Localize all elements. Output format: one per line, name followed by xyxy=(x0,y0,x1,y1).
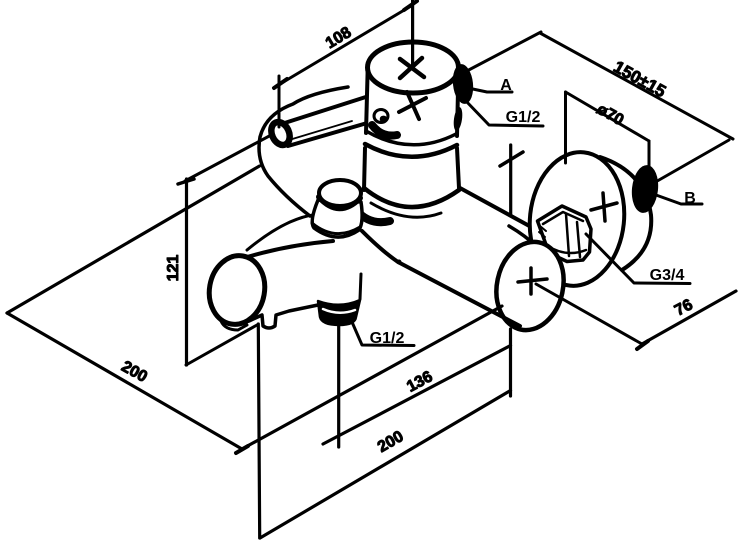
svg-text:G1/2: G1/2 xyxy=(370,330,405,347)
cartridge upper walls xyxy=(366,72,368,133)
dimension ø70 left extension xyxy=(564,92,567,163)
dimension 108 line xyxy=(280,6,411,84)
dimension 150±15 extension from A xyxy=(463,32,541,73)
body right silhouette knob to outlet bottom xyxy=(362,231,520,326)
outlet cross xyxy=(518,268,547,294)
disc front ellipse xyxy=(523,147,630,290)
knurled nut body xyxy=(538,206,592,262)
dimension 121 extension to lever end xyxy=(185,134,273,181)
wall plane upper edge from left corner xyxy=(7,166,260,313)
centerline vertical above handle xyxy=(411,0,414,66)
wall flange arc behind cartridge and lever xyxy=(259,87,348,216)
body top edge left xyxy=(244,241,333,258)
dimension ø70 line xyxy=(566,92,650,141)
diverter knob ring arc xyxy=(319,197,360,208)
nut corner notches xyxy=(539,226,546,237)
diverter knob skirt xyxy=(312,200,362,237)
black crescent upper xyxy=(372,125,397,136)
extension vertical from spout bottom xyxy=(258,324,259,538)
spout lip tab xyxy=(221,321,247,330)
body bottom edge with aerator bump xyxy=(249,305,318,328)
G1/2 bottom nipple black xyxy=(318,300,360,325)
bottom corner V tick xyxy=(236,446,248,453)
black crescent lower xyxy=(356,210,390,222)
body seam near nipple xyxy=(360,274,361,299)
handle lever end cap xyxy=(268,119,293,148)
cartridge ring 1 arcs xyxy=(366,131,456,145)
dimension 150±15 extension from B xyxy=(652,140,729,184)
tube lower edge xyxy=(509,226,537,247)
nut facet lines xyxy=(566,214,580,257)
body back top edge along wall xyxy=(247,215,313,250)
outlet centerline with tick xyxy=(509,145,512,215)
svg-text:A: A xyxy=(500,77,512,94)
cartridge silhouette xyxy=(364,70,459,207)
diverter knob bottom lip xyxy=(312,223,360,234)
svg-text:G3/4: G3/4 xyxy=(650,267,685,284)
spout end ellipse xyxy=(204,251,270,329)
disc cross xyxy=(591,193,617,221)
outlet end ellipse xyxy=(488,236,571,337)
leader A xyxy=(468,88,512,92)
extension from outlet center to 76 corner xyxy=(536,284,642,344)
dimension 136 line xyxy=(323,346,511,445)
handle lever body xyxy=(283,95,380,146)
cartridge top ellipse xyxy=(368,42,459,93)
dimension ø70 right extension xyxy=(648,141,651,177)
dimension 200 upper line xyxy=(7,313,242,449)
extension vertical below diverter xyxy=(337,325,340,447)
dimension 121 top tick xyxy=(178,179,194,184)
dimension 150±15 line xyxy=(540,33,733,139)
disc rim arc xyxy=(600,157,651,270)
X cross on cartridge front xyxy=(399,92,426,119)
dimension 108 left extension xyxy=(278,76,281,127)
nut chamfer line xyxy=(543,212,583,224)
tube top straight edge from bell to nut xyxy=(460,188,544,234)
crest dot xyxy=(397,260,402,265)
dimension 76 line xyxy=(642,291,736,344)
bottom plane edge to outlet xyxy=(242,306,502,449)
leader G3/4 xyxy=(586,234,690,284)
dimension 121 bottom extension xyxy=(186,325,257,365)
pivot dot xyxy=(374,110,388,123)
leader G1/2 upper xyxy=(465,100,543,126)
cartridge bell arc 1 xyxy=(364,188,459,207)
seal A black xyxy=(451,63,475,105)
svg-text:B: B xyxy=(684,190,696,207)
X cross on handle top xyxy=(400,58,424,78)
handle lever joint arc xyxy=(370,93,386,121)
corner tick at 76 xyxy=(637,341,648,349)
svg-text:G1/2: G1/2 xyxy=(506,109,541,126)
nut bottom band xyxy=(546,245,586,253)
leader B xyxy=(656,195,702,204)
dimension 108 tick left xyxy=(274,79,287,88)
svg-text:121: 121 xyxy=(165,255,182,282)
cartridge bell arc 2 xyxy=(371,203,441,217)
leader G1/2 bottom xyxy=(352,322,414,346)
seal B black xyxy=(630,164,661,214)
diverter knob top ellipse xyxy=(319,180,361,206)
cartridge lower walls xyxy=(364,148,365,190)
dimension 108 tick right xyxy=(404,1,417,10)
extension vertical right of 136/200 xyxy=(509,329,512,396)
dimension 200 bottom line xyxy=(260,391,511,539)
dimension 121 vertical line xyxy=(185,179,188,365)
